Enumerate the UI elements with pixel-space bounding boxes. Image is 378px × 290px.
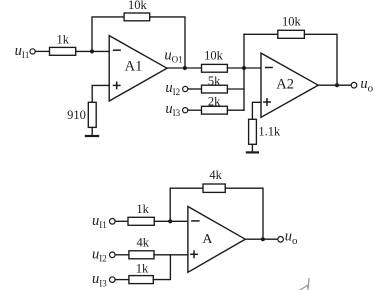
op-amp A2 bbox=[261, 53, 318, 117]
wire 5k to summing bus bbox=[227, 88, 244, 90]
node u_O1 label bbox=[164, 47, 182, 64]
value label 1.1k bbox=[258, 125, 281, 139]
node u_I1 label (bottom) bbox=[92, 213, 107, 230]
svg-text:10k: 10k bbox=[282, 15, 302, 29]
wire A2 output bbox=[318, 84, 351, 86]
wire 1.1k to ground bbox=[251, 144, 253, 151]
node u_I2 label (bottom) bbox=[92, 246, 107, 263]
resistor 10k (A1 feedback) bbox=[124, 13, 150, 21]
A1 minus sign bbox=[114, 49, 121, 51]
wire u_I2 to R 5k bbox=[188, 88, 202, 90]
wire u_I3 to R 1k (bottom row3) bbox=[115, 279, 129, 281]
node u_I2 label (top) bbox=[165, 80, 180, 97]
svg-text:2k: 2k bbox=[208, 94, 221, 108]
wire A1 noninverting stub bbox=[92, 85, 109, 102]
svg-text:A2: A2 bbox=[276, 76, 294, 92]
value label 10k (A2 feedback) bbox=[282, 15, 302, 29]
value label 1k (u_I3 input, bottom) bbox=[136, 262, 149, 276]
terminal u_I2 (bottom) bbox=[110, 252, 116, 258]
resistor 1k (A inverting input) bbox=[128, 217, 154, 225]
svg-text:A1: A1 bbox=[125, 58, 143, 74]
node u_o label (top) bbox=[360, 76, 373, 95]
resistor 1k (A1 input) bbox=[50, 47, 76, 55]
wire summing bus vertical bbox=[243, 34, 245, 110]
resistor 10k (u_O1 to A2) bbox=[202, 64, 228, 72]
value label 4k (A noninverting input) bbox=[136, 236, 149, 250]
A2 minus sign bbox=[266, 67, 272, 69]
svg-text:4k: 4k bbox=[136, 236, 149, 250]
A minus sign bbox=[192, 220, 199, 222]
wire A1 feedback left/up bbox=[92, 17, 124, 52]
wire A1 output bbox=[167, 67, 202, 69]
wire u_I2 to R 4k (bottom) bbox=[115, 254, 129, 256]
ground (A2) bbox=[247, 151, 258, 153]
junction A output node bbox=[261, 237, 265, 241]
ground (A1) bbox=[86, 135, 98, 137]
svg-text:1.1k: 1.1k bbox=[258, 125, 281, 139]
A2 plus sign bbox=[264, 99, 270, 105]
junction A1 inverting node bbox=[90, 49, 94, 53]
value label 4k (A feedback) bbox=[209, 168, 222, 182]
wire A2 feedback right/down bbox=[304, 34, 337, 85]
op-amp A1 bbox=[109, 36, 167, 101]
value label 5k bbox=[208, 74, 221, 88]
resistor 910 (A1 noninverting to ground) bbox=[88, 102, 96, 127]
op-amp label A bbox=[202, 232, 213, 247]
node u_o label (bottom) bbox=[285, 228, 298, 247]
A1 plus sign bbox=[114, 82, 120, 88]
wire 2k to summing bus bbox=[227, 109, 244, 111]
wire R 1k to A1 inverting input bbox=[76, 50, 110, 52]
svg-text:1k: 1k bbox=[136, 262, 149, 276]
wire A1 feedback right/down bbox=[150, 17, 185, 68]
value label 2k bbox=[208, 94, 221, 108]
terminal u_o (bottom) bbox=[278, 237, 284, 243]
wire u_I1 to R 1k (bottom) bbox=[115, 220, 128, 222]
resistor 4k (A feedback) bbox=[203, 184, 225, 192]
terminal u_I2 (top) bbox=[183, 86, 188, 91]
junction u_O1 node bbox=[183, 66, 187, 70]
value label 1k (A inverting input) bbox=[136, 202, 149, 216]
wire 910 to ground bbox=[91, 127, 93, 135]
wire 1k up to noninverting line bbox=[153, 255, 170, 280]
value label 10k (series) bbox=[204, 49, 224, 63]
op-amp A bbox=[188, 207, 245, 273]
node u_I1 label (top) bbox=[15, 43, 30, 60]
svg-text:5k: 5k bbox=[208, 74, 221, 88]
wire R 4k to A noninverting input bbox=[154, 254, 188, 256]
node u_I3 label (bottom) bbox=[92, 271, 107, 288]
A plus sign bbox=[191, 251, 197, 257]
resistor 5k (u_I2 input) bbox=[202, 85, 228, 93]
svg-text:4k: 4k bbox=[209, 168, 222, 182]
wire A output bbox=[245, 238, 277, 240]
stray mark (bottom right artifact) bbox=[299, 279, 309, 290]
node u_I3 label (top) bbox=[165, 101, 180, 118]
terminal u_o (top) bbox=[351, 82, 357, 88]
terminal u_I1 (bottom) bbox=[110, 219, 116, 225]
svg-text:10k: 10k bbox=[128, 0, 148, 12]
wire u_I3 to R 2k bbox=[188, 109, 202, 111]
value label 910 bbox=[67, 108, 86, 122]
svg-text:A: A bbox=[202, 232, 213, 247]
svg-text:1k: 1k bbox=[56, 32, 69, 46]
svg-text:1k: 1k bbox=[136, 202, 149, 216]
wire A feedback right/down bbox=[225, 188, 263, 239]
value label 1k (A1 input) bbox=[56, 32, 69, 46]
resistor 1.1k (A2 noninverting to ground) bbox=[249, 119, 257, 144]
terminal u_I3 (top) bbox=[183, 108, 188, 113]
resistor 1k (u_I3 input, bottom) bbox=[129, 276, 153, 284]
resistor 2k (u_I3 input) bbox=[202, 106, 228, 114]
wire A2 noninverting stub bbox=[252, 102, 261, 119]
terminal u_I1 (top) bbox=[30, 49, 35, 54]
terminal u_I3 (bottom) bbox=[110, 277, 116, 283]
junction A2 inverting node bbox=[242, 66, 246, 70]
resistor 10k (A2 feedback) bbox=[278, 30, 305, 38]
junction A2 output node bbox=[335, 83, 339, 87]
value label 10k (A1 feedback) bbox=[128, 0, 148, 12]
wire A feedback left/up bbox=[170, 188, 203, 221]
op-amp label A1 bbox=[125, 58, 143, 74]
resistor 4k (A noninverting input) bbox=[129, 251, 154, 259]
wire R 1k to A inverting input bbox=[154, 220, 188, 222]
svg-text:910: 910 bbox=[67, 108, 86, 122]
wire 10k to A2 inverting input bbox=[227, 67, 261, 69]
wire u_I1 to R 1k bbox=[35, 50, 49, 52]
svg-text:10k: 10k bbox=[204, 49, 224, 63]
junction A inverting node bbox=[168, 219, 172, 223]
wire A2 feedback left bbox=[244, 33, 278, 35]
op-amp label A2 bbox=[276, 76, 294, 92]
